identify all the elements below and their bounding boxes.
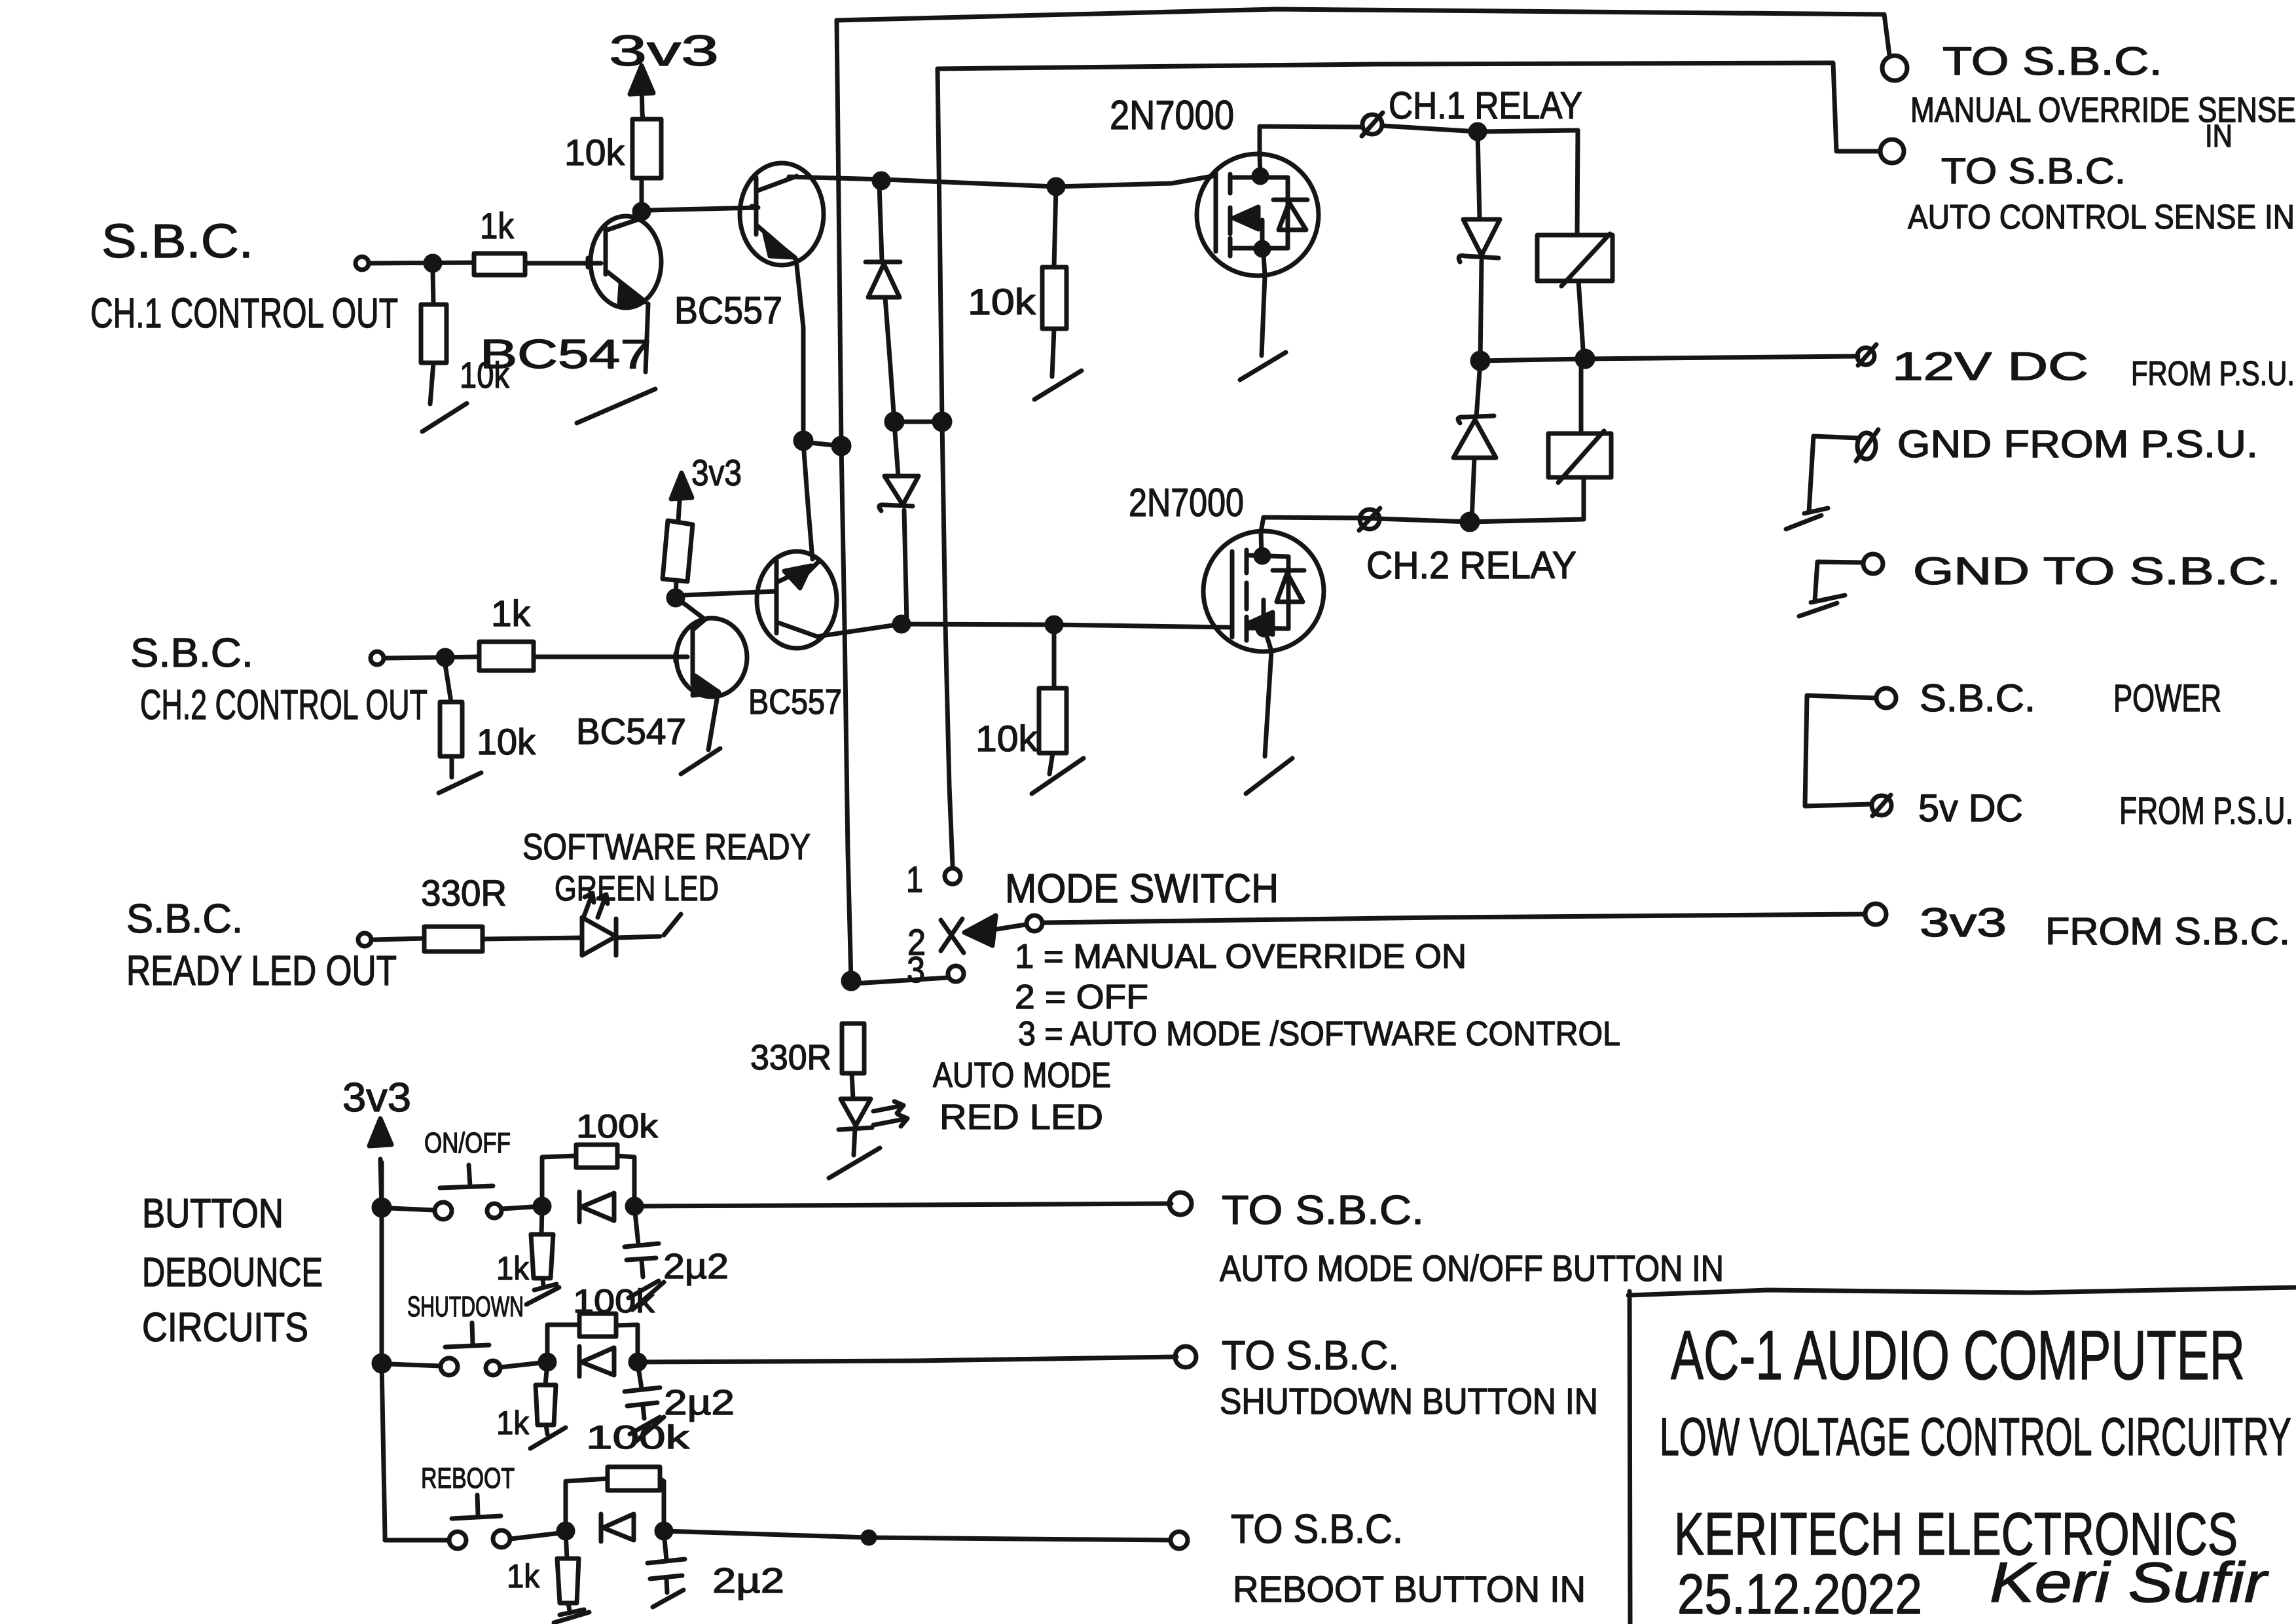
svg-text:2µ2: 2µ2 [663,1247,729,1286]
node: junction row3 left [558,1524,573,1538]
svg-text:REBOOT: REBOOT [421,1462,515,1494]
svg-text:3v3: 3v3 [691,452,742,493]
power: 3v3 arrow (buttons) [342,1075,411,1209]
svg-text:MANUAL OVERRIDE SENSE: MANUAL OVERRIDE SENSE [1910,90,2296,130]
transistor Q3 BC557 (CH1) [674,163,824,332]
wire: 1k to BC547 Q1 base [525,261,601,266]
node: S.B.C. CH.1 CONTROL OUT terminal [90,215,398,337]
node: 5v DC FROM P.S.U. terminal [1872,787,2293,832]
switch SW SHUTDOWN button [390,1291,547,1375]
node: junction row1 left [535,1199,549,1213]
svg-text:ON/OFF: ON/OFF [424,1127,511,1159]
node: blob on row3 wire [863,1532,875,1543]
ground (Q1 emitter) [577,304,655,423]
ground (Q2 emitter) [681,692,720,774]
node: S.B.C. POWER terminal [1876,677,2221,720]
svg-text:1: 1 [906,858,923,900]
svg-text:DEBOUNCE: DEBOUNCE [142,1250,323,1295]
node: CH.1 RELAY drive terminal [1362,84,1582,136]
ground (cap row2) [630,1417,660,1434]
node: TO S.B.C. AUTO MODE ON/OFF BUTTON IN terminal [1169,1188,1724,1289]
switch SW1 pos 2 (common arm) [907,915,1042,963]
wire: 330R to green LED [483,938,582,939]
svg-text:Keri Sufir: Keri Sufir [1990,1551,2269,1614]
wire: M2 drain up to CH2 relay line [1261,517,1360,532]
wire: Q3 emitter down to shared emitter node [796,259,803,441]
wire: Q1 collector junction to Q3 base [649,208,758,210]
node: Q1 collector junction [634,204,649,219]
diode D row2 (across 100k) [579,1346,614,1376]
svg-text:S.B.C.: S.B.C. [130,631,253,676]
wire: gate line 1 (Q3 collector to 2N7000 no.1 gate) [789,175,1216,187]
svg-text:AUTO MODE: AUTO MODE [933,1056,1111,1095]
resistor R 10k (Q2 collector to 3v3) [676,581,676,597]
svg-text:2µ2: 2µ2 [664,1383,735,1422]
node: junction row3 right [657,1524,671,1538]
wire: CH1 input to 1k [371,263,474,263]
svg-text:2N7000: 2N7000 [1110,93,1234,138]
svg-text:10k: 10k [975,718,1038,759]
wire: ready led out to 330R [374,938,424,940]
svg-text:POWER: POWER [2113,677,2221,720]
svg-text:2 = OFF: 2 = OFF [1015,978,1148,1016]
diode D3 (CH1 relay flyback) [1459,133,1500,361]
wire: LED cathode stub [616,936,660,938]
label: 12V DC FROM P.S.U. [1892,344,2295,393]
svg-text:330R: 330R [421,872,507,913]
wire: CH1 drive line to relay 1 [1382,126,1578,132]
node junction at CH1 input [426,256,440,270]
svg-text:TO S.B.C.: TO S.B.C. [1941,150,2126,191]
svg-text:BC547: BC547 [480,332,651,377]
switch SW ON/OFF button [390,1127,542,1219]
label: BUTTON DEBOUNCE CIRCUITS [142,1191,323,1350]
node: S.B.C. READY LED OUT terminal [126,896,397,994]
resistor R 100k (row1) [542,1108,659,1206]
node: junction row1 right [627,1199,642,1213]
svg-text:100k: 100k [576,1108,659,1145]
svg-text:100k: 100k [586,1419,690,1456]
resistor R 330R (ready LED) [421,872,507,951]
wire: M1 drain up to CH1 relay line [1260,126,1362,155]
resistor R 1k (row3) [507,1532,579,1611]
ground (CH2 pulldown) [439,773,481,793]
transistor Q1 BC547 [480,216,661,377]
wire: emitter jog to manual override line [803,442,841,446]
ground (gate 2 pulldown) [1032,758,1084,794]
svg-text:GND TO S.B.C.: GND TO S.B.C. [1913,550,2281,593]
svg-text:1k: 1k [496,1250,530,1287]
svg-text:FROM S.B.C.: FROM S.B.C. [2045,910,2290,953]
node: 12V DC FROM P.S.U. terminal [1857,344,1876,365]
svg-text:330R: 330R [750,1038,831,1077]
node: D4 junction on CH2 drive [1462,514,1478,530]
switch SW1 MODE SWITCH pos 1 [906,858,1279,912]
svg-text:10k: 10k [477,721,536,762]
resistor R 10k (Q1 collector to 3v3) [564,119,661,178]
resistor R 1k (row1) [496,1208,553,1287]
wire: 3v3 from S.B.C. line [1044,914,1865,923]
node junction at CH2 input [438,650,452,665]
wire: line B auto control sense (vertical) [938,69,953,866]
ground (GND TO S.B.C. hook) [1799,562,1863,616]
svg-text:1k: 1k [480,205,515,246]
node: TO S.B.C. SHUTDOWN BUTTON IN terminal [1175,1333,1598,1422]
node: 10k pulldown tap on gate line 1 [1049,179,1063,194]
svg-text:GND FROM P.S.U.: GND FROM P.S.U. [1897,423,2258,466]
svg-text:SHUTDOWN: SHUTDOWN [407,1291,524,1323]
capacitor C 2u2 (row3) [647,1532,784,1600]
wire: Q2 collector junction to Q4 base [682,591,776,595]
LED D red (auto mode) [839,1099,907,1130]
svg-text:AUTO CONTROL SENSE IN: AUTO CONTROL SENSE IN [1908,198,2295,236]
node: 12V junction (relay 1) [1577,351,1593,367]
relay K2 coil (CH.2) [1470,361,1611,522]
svg-text:SOFTWARE READY: SOFTWARE READY [522,826,811,867]
wire: manual override sense line (top) [837,9,1889,55]
resistor R 10k (CH2 input pulldown) [440,665,536,777]
svg-text:S.B.C.: S.B.C. [1920,677,2035,720]
svg-text:3 = AUTO MODE /SOFTWARE CONTR: 3 = AUTO MODE /SOFTWARE CONTROL [1018,1015,1620,1053]
wire: jog to line B [894,420,942,424]
node: GND TO S.B.C. terminal [1863,550,2281,593]
ground (gate 1 pulldown) [1034,371,1082,399]
transistor M2 2N7000 (CH2) [1129,481,1324,652]
diode D row3 (across 100k) [601,1514,634,1541]
svg-text:3: 3 [907,949,925,990]
ground (red LED) [829,1148,880,1178]
wire: CH2 drive line [1360,518,1470,522]
svg-text:1k: 1k [507,1558,540,1595]
capacitor C 2u2 (row1) [625,1206,729,1310]
resistor R 100k (row3) [566,1467,664,1531]
node: GND FROM P.S.U. terminal [1856,423,2258,466]
resistor R 330R (auto mode LED) [750,1024,864,1099]
node: 12V junction (D3/D4) [1472,353,1488,369]
svg-text:BC557: BC557 [748,682,842,722]
svg-text:MODE SWITCH: MODE SWITCH [1005,866,1279,912]
wire: S.B.C. power bracket [1805,695,1876,806]
node: diode chain D1 tap [874,174,888,188]
diode D4 (CH2 relay flyback) [1453,362,1496,521]
svg-text:TO S.B.C.: TO S.B.C. [1222,1188,1424,1233]
svg-text:2N7000: 2N7000 [1129,481,1244,525]
resistor R 1k (row2) [496,1363,556,1441]
capacitor C 2u2 (row2) [625,1363,735,1443]
svg-text:100k: 100k [573,1283,655,1319]
wire: 1k to BC547 Q2 base [534,655,687,659]
power: 3v3 arrow (top) [609,26,719,119]
svg-text:BUTTON: BUTTON [142,1191,283,1236]
svg-text:1k: 1k [496,1405,530,1441]
resistor R 10k (gate 2 pulldown) [975,625,1066,774]
ground (CH1 pulldown) [422,403,467,432]
node: junction on line B [934,414,950,430]
LED D green (software ready) [522,826,811,955]
svg-text:5v DC: 5v DC [1918,787,2023,830]
node: 3v3 FROM S.B.C. terminal [1865,900,2290,953]
svg-text:TO S.B.C.: TO S.B.C. [1231,1507,1403,1552]
relay K1 coil (CH.1) [1537,130,1613,359]
node: Q2 collector junction [668,591,683,605]
svg-text:CIRCUITS: CIRCUITS [142,1305,308,1350]
ground (cap row1) [629,1281,659,1298]
svg-text:TO S.B.C.: TO S.B.C. [1222,1333,1399,1378]
node: rail junction row2 [374,1356,390,1371]
svg-text:RED LED: RED LED [939,1098,1103,1137]
wire: line A manual override sense (vertical) [837,20,851,981]
svg-text:CH.2 CONTROL OUT: CH.2 CONTROL OUT [140,681,428,728]
ground (cap row3) [653,1590,683,1607]
wire: CH2 input to 1k [386,657,479,658]
svg-text:SHUTDOWN BUTTON IN: SHUTDOWN BUTTON IN [1220,1380,1598,1422]
transistor Q4 BC557 (CH2) [748,551,842,722]
svg-text:25.12.2022: 25.12.2022 [1677,1563,1922,1624]
svg-text:CH.1 RELAY: CH.1 RELAY [1389,84,1582,127]
node: D1/D2 junction [886,414,902,430]
svg-text:FROM P.S.U.: FROM P.S.U. [2119,790,2293,832]
svg-text:1 = MANUAL OVERRIDE ON: 1 = MANUAL OVERRIDE ON [1015,938,1467,976]
title block border [1628,1287,2296,1624]
svg-text:TO S.B.C.: TO S.B.C. [1942,39,2162,83]
svg-text:AUTO MODE ON/OFF BUTTON IN: AUTO MODE ON/OFF BUTTON IN [1220,1247,1724,1289]
svg-text:12V DC: 12V DC [1892,344,2088,388]
diode D1 (gate line 1 to line B) [866,185,900,422]
node: 10k pulldown tap on gate line 2 [1047,618,1061,632]
svg-text:FROM P.S.U.: FROM P.S.U. [2131,355,2295,393]
wire: red LED to ground [854,1128,855,1155]
wire: row3 to terminal [664,1531,1171,1540]
wire: 3v3 button rail [382,1162,448,1540]
ground (1k row2) [530,1428,566,1449]
svg-text:BC557: BC557 [674,289,782,332]
node: junction row2 right [630,1355,645,1369]
switch SW REBOOT button [421,1462,566,1549]
resistor R 10k (CH1 input pulldown) [421,270,510,404]
svg-text:CH.2 RELAY: CH.2 RELAY [1366,544,1576,587]
svg-text:READY LED OUT: READY LED OUT [126,947,397,994]
svg-text:3v3: 3v3 [342,1075,411,1120]
node: TO S.B.C. REBOOT BUTTON IN terminal [1171,1507,1586,1610]
node: shared PNP emitter junction [795,433,811,449]
wire: auto control sense line (second top) [938,63,1880,151]
switch SW1 pos 3 [854,949,964,990]
node: junction on manual override line [833,438,849,454]
svg-text:AC-1 AUDIO COMPUTER: AC-1 AUDIO COMPUTER [1671,1317,2245,1394]
node: TO S.B.C. AUTO CONTROL SENSE IN terminal [1880,139,2295,236]
node: D3 tap on CH1 drive [1470,124,1485,139]
transistor Q2 BC547 [576,618,747,752]
svg-text:CH.1 CONTROL OUT: CH.1 CONTROL OUT [90,289,398,337]
wire: row2 to terminal [638,1357,1176,1362]
node: S.B.C. CH.2 CONTROL OUT terminal [130,631,428,728]
wire: gate line 2 (Q4 collector to 2N7000 no.2 gate) [817,624,1232,637]
wire: 12V DC rail [1480,356,1858,361]
wire: Q1 collector up [640,178,642,219]
wire: row1 to terminal [634,1204,1171,1206]
svg-text:LOW VOLTAGE CONTROL CIRCUITRY: LOW VOLTAGE CONTROL CIRCUITRY [1660,1407,2291,1467]
node: junction row2 left [540,1355,555,1369]
svg-text:REBOOT BUTTON IN: REBOOT BUTTON IN [1233,1568,1586,1610]
svg-text:10k: 10k [564,132,625,173]
node: rail junction row1 [374,1200,390,1215]
svg-text:IN: IN [2205,119,2232,154]
node: D2 junction on gate line 2 [894,617,909,631]
wire: shared emitter down to Q4 emitter [803,443,812,559]
diode D2 (to gate line 2) [879,423,919,622]
resistor R 10k (gate 1 pulldown) [968,187,1066,377]
resistor R 1k (CH2 base) [479,593,534,671]
ground (1k row1) [526,1284,559,1304]
power: 3v3 arrow (mid) [671,452,742,521]
svg-text:1k: 1k [491,593,531,634]
ground (M1 source) [1240,255,1286,380]
svg-text:S.B.C.: S.B.C. [101,215,253,268]
svg-text:3v3: 3v3 [609,26,719,75]
resistor R 100k (row2) [547,1283,655,1362]
diode D row1 (across 100k) [579,1192,614,1222]
node: CH.2 RELAY drive terminal [1359,508,1576,587]
ground (GND FROM P.S.U. hook) [1786,436,1858,529]
resistor R 1k (CH1 base) [474,205,525,275]
svg-text:S.B.C.: S.B.C. [126,896,243,942]
node: TO S.B.C. MANUAL OVERRIDE SENSE IN terminal [1882,39,2296,154]
ground (M2 source) [1246,630,1292,794]
svg-text:3v3: 3v3 [1920,900,2007,946]
ground (1k row3) [554,1610,589,1623]
wire: Q2 collector up-left to junction [676,598,705,619]
svg-text:2µ2: 2µ2 [712,1561,784,1600]
svg-text:GREEN LED: GREEN LED [555,869,719,908]
ground (LED return slash) [664,914,681,935]
node: mode switch pos3 junction [843,973,859,989]
svg-text:BC547: BC547 [576,710,686,752]
svg-text:10k: 10k [968,281,1036,322]
transistor M1 2N7000 (CH1) [1110,93,1319,276]
